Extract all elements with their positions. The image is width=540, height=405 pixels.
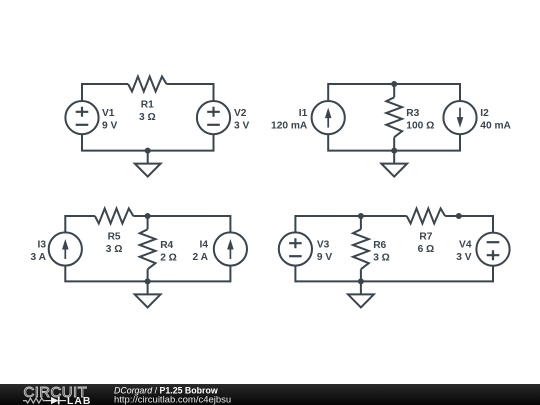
footer author and title text [114,385,218,395]
svg-text:V2: V2 [234,108,247,119]
wire bottom rail circuit 2 [328,134,460,150]
svg-text:9 V: 9 V [317,252,332,263]
wire top rail circuit 1 [82,84,214,101]
CircuitLab logo wordmark CIRCUIT [24,384,88,401]
svg-text:I4: I4 [200,239,209,250]
svg-text:R3: R3 [406,108,419,119]
resistor R3 [386,84,402,151]
voltage source V4 reversed polarity [476,233,509,266]
node junction R4 top [145,213,151,219]
svg-text:R6: R6 [373,240,386,251]
svg-text:I2: I2 [480,108,489,119]
ground circuit 2 [381,151,407,177]
label I3 3 A [31,239,47,262]
label V4 3 V [456,239,472,262]
node junction R6 bottom [358,278,364,284]
svg-text:100 Ω: 100 Ω [406,121,434,132]
voltage source V1 [65,101,98,134]
label V1 9 V [102,108,117,131]
svg-text:V1: V1 [102,108,115,119]
voltage source V3 [279,232,312,265]
svg-text:9 V: 9 V [102,120,117,131]
svg-text:120 mA: 120 mA [271,120,308,131]
node junction circuit 1 ground [145,148,151,154]
svg-text:R5: R5 [108,231,121,242]
resistor R1 [128,77,166,92]
wire bottom rail circuit 1 [82,134,214,150]
current source I2 [443,101,476,134]
node junction R6 top [358,213,364,219]
svg-text:3 Ω: 3 Ω [106,244,123,255]
svg-text:2 A: 2 A [193,252,209,263]
label I2 40 mA [480,108,511,131]
node junction R3 top [391,81,397,87]
svg-text:R7: R7 [419,231,432,242]
svg-text:3 Ω: 3 Ω [373,252,390,263]
svg-text:3 V: 3 V [234,120,249,131]
node junction R7 right [456,213,462,219]
current source I4 [214,232,247,265]
svg-text:R1: R1 [141,99,154,110]
node junction R4 bottom [145,278,151,284]
wire bottom rail circuit 3 [65,266,230,282]
footer url text [114,394,231,405]
resistor R6 [353,216,369,281]
CircuitLab logo wordmark LAB [67,395,91,405]
ground circuit 4 [348,281,374,307]
svg-text:LAB: LAB [67,395,91,404]
label R4 2 Ω [160,240,177,263]
wire top rail circuit 4 [295,216,493,233]
label I1 120 mA [271,108,308,131]
current source I1 [312,101,345,134]
label R5 3 Ω [106,231,123,254]
voltage source V2 [197,101,230,134]
svg-text:6 Ω: 6 Ω [418,244,435,255]
svg-text:3 V: 3 V [456,252,471,263]
CircuitLab logo diode [46,396,66,403]
svg-text:V4: V4 [459,239,472,250]
label V2 3 V [234,108,249,131]
node junction R3 bottom [391,148,397,154]
svg-text:V3: V3 [317,239,330,250]
ground circuit 1 [135,151,161,177]
label V3 9 V [317,239,332,262]
label R3 100 Ω [406,108,434,131]
resistor R4 [140,216,156,281]
wire top rail circuit 2 [328,84,460,101]
svg-text:2 Ω: 2 Ω [160,252,177,263]
svg-text:R4: R4 [160,240,173,251]
svg-text:http://circuitlab.com/c4ejbsu: http://circuitlab.com/c4ejbsu [114,394,231,404]
CircuitLab logo resistor zigzag [23,398,47,403]
svg-text:I1: I1 [299,108,308,119]
wire top rail circuit 3 [65,216,230,232]
label R6 3 Ω [373,240,390,263]
svg-text:3 Ω: 3 Ω [139,112,156,123]
svg-text:40 mA: 40 mA [480,120,511,131]
label R7 6 Ω [418,231,435,254]
resistor R5 [95,209,133,224]
current source I3 [49,232,82,265]
label I4 2 A [193,239,209,262]
svg-text:3 A: 3 A [31,252,47,263]
ground circuit 3 [135,281,161,307]
label R1 3 Ω [139,99,156,122]
resistor R7 [407,209,445,224]
wire bottom rail circuit 4 [295,266,493,282]
svg-text:I3: I3 [38,239,47,250]
